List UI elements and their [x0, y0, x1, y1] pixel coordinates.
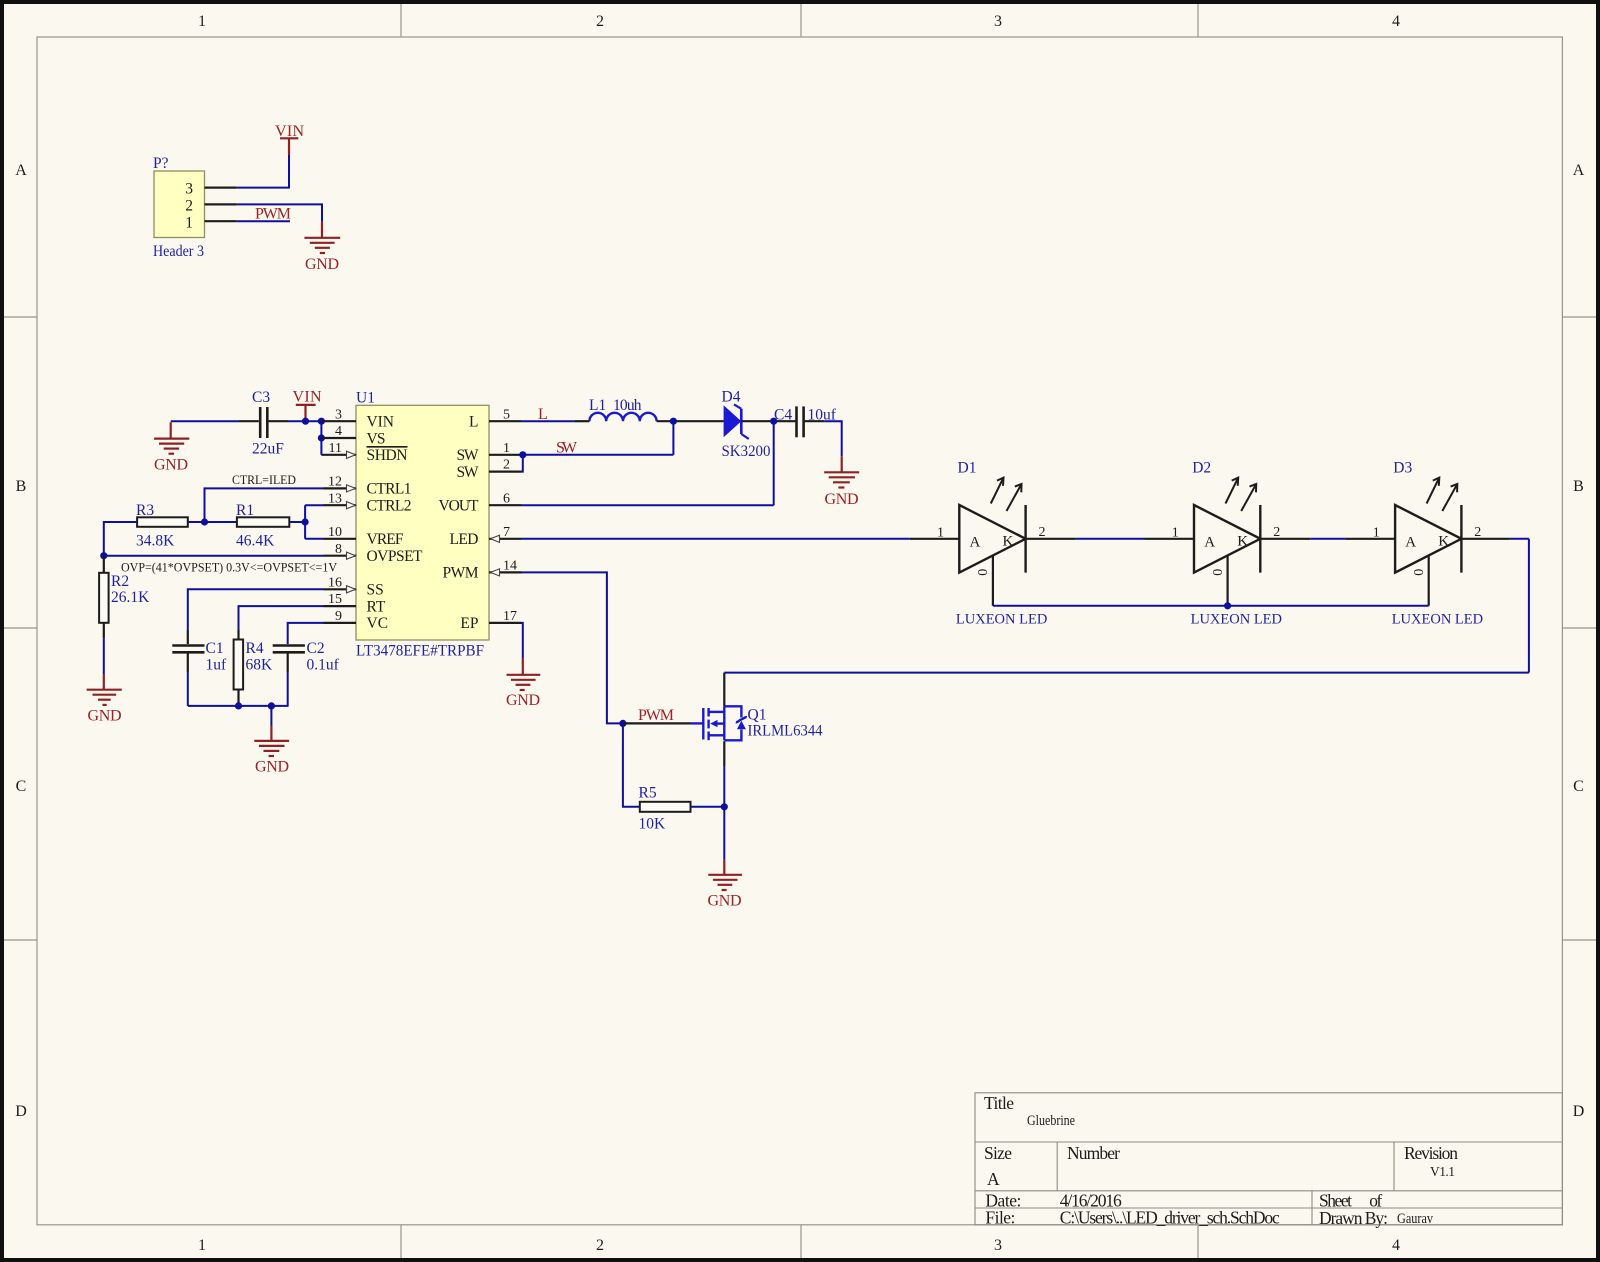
input pin arrows left side (pins 11,12,13,8,16)	[347, 451, 356, 593]
svg-text:34.8K: 34.8K	[136, 533, 175, 550]
svg-text:10K: 10K	[639, 816, 667, 833]
svg-text:B: B	[1573, 478, 1584, 495]
svg-text:Gluebrine: Gluebrine	[1027, 1113, 1075, 1129]
svg-text:C: C	[16, 778, 27, 795]
U1 left pin numbers	[328, 407, 342, 624]
wire L1 to D4	[657, 420, 724, 422]
pin 2 stub	[205, 203, 237, 205]
svg-text:2: 2	[1273, 525, 1280, 540]
svg-text:1uf: 1uf	[206, 657, 228, 674]
svg-text:PWM: PWM	[255, 206, 291, 223]
svg-text:6: 6	[503, 491, 510, 506]
svg-text:1: 1	[1373, 526, 1380, 541]
junction dot OVPSET	[100, 552, 107, 559]
svg-text:11: 11	[329, 441, 342, 456]
svg-text:D: D	[15, 1103, 27, 1120]
svg-text:GND: GND	[708, 893, 742, 910]
resistor R3	[137, 517, 188, 527]
inductor L1	[574, 420, 589, 422]
ground symbol (C1/R4/C2 rail)	[254, 726, 289, 757]
junction dot R3/R1/CTRL1	[201, 518, 208, 525]
capacitor C1	[187, 630, 189, 644]
svg-text:2: 2	[1474, 525, 1481, 540]
svg-text:0.1uf: 0.1uf	[307, 657, 340, 674]
svg-text:1: 1	[198, 13, 206, 30]
svg-text:4: 4	[1392, 1237, 1400, 1254]
diode D4 SK3200	[724, 404, 749, 439]
ground symbol (R2)	[87, 674, 122, 705]
power port VIN (at U1)	[296, 405, 316, 421]
title block	[975, 1093, 1562, 1225]
wire VOUT horizontal	[522, 504, 774, 506]
resistor R2	[103, 556, 105, 573]
svg-text:Q1: Q1	[748, 707, 767, 724]
svg-text:46.4K: 46.4K	[236, 533, 275, 550]
junction dot D2 pad	[1224, 602, 1231, 609]
svg-text:A: A	[15, 162, 27, 179]
wire pin2 to GND	[237, 204, 322, 221]
svg-text:Title: Title	[984, 1093, 1014, 1113]
title block text	[984, 1093, 1458, 1228]
svg-text:K: K	[1003, 534, 1014, 550]
junction dot pin3 branch	[318, 418, 325, 425]
svg-text:D: D	[1573, 1103, 1585, 1120]
svg-text:Gaurav: Gaurav	[1397, 1211, 1434, 1227]
svg-text:8: 8	[335, 542, 342, 557]
svg-text:VOUT: VOUT	[439, 498, 480, 515]
svg-text:SHDN: SHDN	[367, 447, 408, 464]
wire SW horizontal	[523, 454, 674, 456]
svg-text:0: 0	[1211, 569, 1226, 576]
svg-text:3: 3	[994, 1237, 1002, 1254]
svg-text:0: 0	[1412, 569, 1427, 576]
capacitor C4	[797, 406, 804, 437]
resistor R5	[623, 723, 640, 806]
svg-text:2: 2	[503, 458, 510, 473]
wire Q1 source pin	[723, 741, 725, 766]
svg-text:10: 10	[328, 525, 342, 540]
svg-text:LUXEON LED: LUXEON LED	[1392, 612, 1483, 628]
wire PWM to Q1 gate	[623, 722, 691, 724]
svg-text:9: 9	[335, 609, 342, 624]
wire D4 to C4	[741, 420, 795, 422]
U1 right pin names	[439, 414, 480, 633]
junction dot R5/Q1 source	[721, 803, 728, 810]
wire R5 right	[691, 806, 725, 808]
junction dot pin4 branch	[318, 434, 325, 441]
svg-text:A: A	[1405, 534, 1416, 550]
svg-text:OVPSET: OVPSET	[367, 548, 424, 565]
svg-text:C:\Users\..\LED_driver_sch.Sch: C:\Users\..\LED_driver_sch.SchDoc	[1060, 1208, 1280, 1228]
wire pin2 riser	[522, 455, 523, 472]
svg-text:1: 1	[1172, 526, 1179, 541]
wire LED pad rail	[993, 605, 1429, 607]
wire bottom rail	[188, 705, 289, 707]
junction dot PWM/R5	[619, 720, 626, 727]
wire SS	[188, 589, 324, 630]
wire C3 to U1	[269, 420, 289, 422]
svg-text:1: 1	[198, 1237, 206, 1254]
wire Q1 drain pin	[723, 673, 725, 707]
wire VC	[288, 623, 324, 644]
svg-text:L: L	[538, 406, 548, 423]
wire R3 left	[104, 522, 137, 556]
junction dot VIN	[302, 418, 309, 425]
svg-text:4: 4	[1392, 13, 1400, 30]
svg-text:C: C	[1573, 778, 1584, 795]
wire D2-D3	[1310, 538, 1345, 540]
connector P? (Header 3)	[153, 155, 237, 260]
wire gnd drop	[270, 706, 272, 726]
svg-text:3: 3	[185, 181, 193, 198]
ground symbol (C4)	[824, 456, 859, 487]
wire D3 to return	[1510, 538, 1529, 540]
wire C4 to GND	[805, 420, 824, 422]
svg-text:R1: R1	[236, 502, 254, 519]
svg-text:L1: L1	[589, 397, 606, 414]
svg-text:2: 2	[596, 1237, 604, 1254]
wire LED net pin7 to D1	[522, 538, 910, 540]
wire LED return riser	[1528, 539, 1530, 673]
svg-text:5: 5	[503, 407, 510, 422]
svg-text:GND: GND	[305, 256, 339, 273]
svg-text:GND: GND	[255, 759, 289, 776]
junction dot VOUT branch	[770, 418, 777, 425]
svg-text:VIN: VIN	[367, 414, 395, 431]
wire CTRL1	[205, 488, 324, 522]
svg-text:0: 0	[976, 569, 991, 576]
svg-text:R4: R4	[246, 640, 264, 657]
U1 left pin stubs	[321, 421, 356, 623]
svg-text:GND: GND	[506, 692, 540, 709]
svg-text:1: 1	[503, 441, 510, 456]
svg-text:A: A	[1204, 534, 1215, 550]
svg-text:U1: U1	[356, 390, 375, 407]
wire C1 bottom	[187, 654, 189, 673]
svg-text:Size: Size	[984, 1143, 1012, 1163]
wire GND to C3	[171, 420, 239, 422]
svg-text:LUXEON LED: LUXEON LED	[1191, 612, 1282, 628]
ground symbol (header)	[304, 222, 340, 253]
svg-text:A: A	[987, 1169, 1000, 1189]
svg-text:CTRL=ILED: CTRL=ILED	[232, 473, 296, 487]
svg-text:VS: VS	[367, 430, 386, 447]
svg-text:26.1K: 26.1K	[111, 589, 150, 606]
junction dot R1/CTRL2/VREF	[302, 518, 309, 525]
wire pin1 net PWM	[237, 220, 290, 222]
wire pin3 to VIN	[237, 155, 289, 188]
wire CTRL2/VREF vertical	[304, 505, 306, 539]
wire OVPSET	[104, 555, 324, 557]
svg-text:R3: R3	[136, 502, 154, 519]
svg-text:RT: RT	[367, 598, 386, 615]
svg-text:68K: 68K	[246, 657, 274, 674]
wire EP to GND	[522, 623, 523, 658]
svg-text:LUXEON LED: LUXEON LED	[956, 612, 1047, 628]
capacitor C3	[260, 407, 267, 438]
wire drain rail to LED return	[724, 672, 1529, 674]
wire CTRL2	[305, 504, 323, 506]
svg-text:D1: D1	[958, 460, 977, 477]
svg-text:2: 2	[185, 198, 193, 215]
LED D1	[910, 460, 1076, 628]
svg-text:2: 2	[596, 13, 604, 30]
wire R3-R1	[188, 521, 237, 523]
svg-text:File:: File:	[985, 1208, 1015, 1228]
svg-text:Header 3: Header 3	[153, 243, 204, 260]
svg-text:4: 4	[335, 424, 342, 439]
wire vertical to VS/SHDN	[320, 421, 322, 455]
op-amp U1 LT3478 body	[356, 405, 489, 640]
svg-text:V1.1: V1.1	[1430, 1164, 1455, 1179]
pin 3 stub	[205, 187, 237, 189]
svg-text:1: 1	[185, 215, 193, 232]
svg-text:K: K	[1237, 534, 1248, 550]
svg-text:K: K	[1438, 534, 1449, 550]
wire C2 bottom	[287, 654, 289, 673]
junction dot L1/SW	[670, 418, 677, 425]
svg-text:GND: GND	[154, 457, 188, 474]
SHDN overline	[367, 446, 408, 448]
svg-text:VIN: VIN	[293, 389, 322, 406]
capacitor C2	[273, 646, 305, 653]
svg-text:LED: LED	[450, 531, 479, 548]
svg-text:22uF: 22uF	[252, 441, 284, 458]
svg-text:VIN: VIN	[275, 123, 304, 140]
LED D2	[1145, 460, 1311, 628]
svg-text:2: 2	[1039, 525, 1046, 540]
svg-text:SW: SW	[556, 440, 578, 457]
svg-text:A: A	[970, 534, 981, 550]
svg-text:L: L	[469, 414, 478, 431]
svg-text:15: 15	[328, 592, 342, 607]
svg-text:VREF: VREF	[367, 531, 404, 548]
junction dot SW pins 1-2	[519, 451, 526, 458]
svg-text:CTRL1: CTRL1	[367, 481, 412, 498]
wire RT	[239, 606, 324, 630]
wire R4 bottom	[237, 690, 239, 706]
svg-text:VC: VC	[367, 615, 389, 632]
svg-text:PWM: PWM	[443, 565, 479, 582]
power port VIN (top)	[280, 138, 298, 155]
wire VREF	[305, 538, 323, 540]
resistor R4	[237, 630, 239, 640]
svg-text:SK3200: SK3200	[722, 443, 771, 460]
svg-text:D2: D2	[1192, 460, 1211, 477]
svg-text:Drawn By:: Drawn By:	[1319, 1208, 1388, 1228]
wire SW vertical	[672, 421, 674, 455]
wire R1 right to node	[289, 521, 305, 523]
svg-text:GND: GND	[825, 491, 859, 508]
wire D1-D2	[1076, 538, 1145, 540]
U1 right pin numbers	[503, 407, 517, 624]
svg-text:C2: C2	[307, 640, 325, 657]
svg-text:SS: SS	[367, 582, 384, 599]
U1 right pin stubs	[489, 421, 522, 623]
svg-text:CTRL2: CTRL2	[367, 498, 412, 515]
ground symbol (C3 left)	[154, 422, 189, 453]
svg-text:C3: C3	[252, 389, 270, 406]
svg-text:LT3478EFE#TRPBF: LT3478EFE#TRPBF	[356, 643, 484, 660]
svg-text:10uh: 10uh	[613, 397, 642, 414]
wire PWM net from pin14	[522, 572, 623, 723]
transistor Q1 IRLML6344	[691, 706, 747, 740]
svg-text:SW: SW	[457, 464, 479, 481]
svg-text:SW: SW	[457, 447, 479, 464]
ground symbol (EP)	[507, 658, 541, 690]
svg-text:D4: D4	[722, 389, 741, 406]
wire VOUT vertical	[773, 421, 775, 505]
svg-text:P?: P?	[153, 155, 169, 172]
svg-text:C1: C1	[206, 640, 224, 657]
svg-text:PWM: PWM	[638, 707, 674, 724]
junction dot R4 bottom	[235, 702, 242, 709]
svg-text:R5: R5	[639, 785, 657, 802]
svg-text:R2: R2	[111, 573, 129, 590]
svg-text:14: 14	[503, 559, 517, 574]
svg-text:IRLML6344: IRLML6344	[748, 723, 823, 740]
svg-text:Number: Number	[1067, 1143, 1120, 1163]
svg-text:EP: EP	[460, 615, 478, 632]
svg-text:Revision: Revision	[1404, 1143, 1458, 1163]
svg-text:16: 16	[328, 575, 342, 590]
svg-text:GND: GND	[88, 708, 122, 725]
svg-text:13: 13	[328, 491, 342, 506]
svg-text:A: A	[1573, 162, 1585, 179]
svg-text:B: B	[16, 478, 27, 495]
svg-text:D3: D3	[1393, 460, 1412, 477]
input pin arrows right side (pins 7,14)	[491, 535, 500, 576]
svg-text:C4: C4	[774, 406, 792, 423]
resistor R1	[237, 517, 289, 527]
wire R2 bottom	[103, 623, 105, 638]
pin 1 stub	[205, 220, 237, 222]
svg-text:17: 17	[503, 609, 517, 624]
junction dot gnd branch	[268, 702, 275, 709]
wire L net	[522, 420, 575, 422]
LED D3	[1346, 460, 1510, 628]
svg-text:3: 3	[335, 407, 342, 422]
svg-text:1: 1	[937, 526, 944, 541]
svg-text:7: 7	[503, 525, 510, 540]
ground symbol (Q1 source)	[708, 860, 742, 890]
svg-text:OVP=(41*OVPSET) 0.3V<=OVPSET<: OVP=(41*OVPSET) 0.3V<=OVPSET<=1V	[121, 560, 338, 575]
U1 left pin names	[367, 414, 424, 633]
svg-text:12: 12	[328, 475, 342, 490]
svg-text:3: 3	[994, 13, 1002, 30]
